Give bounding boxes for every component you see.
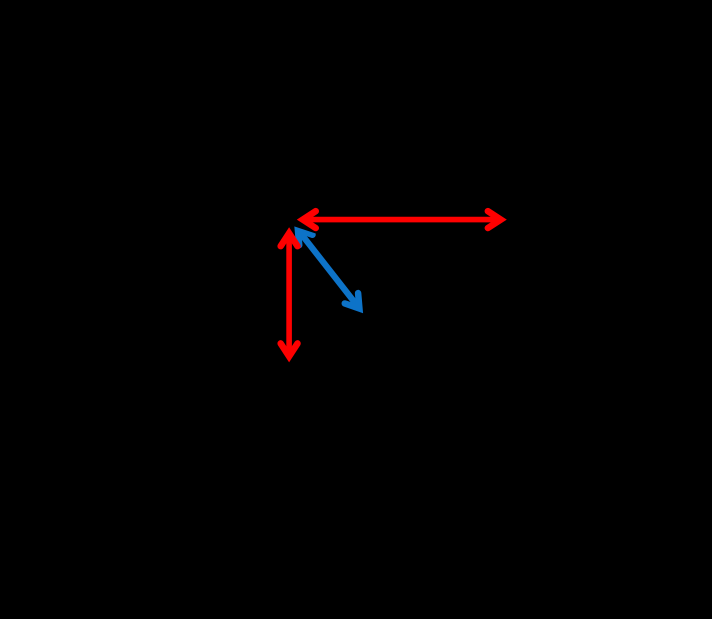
arrowhead: red horizontal, left tip: [303, 211, 316, 228]
arrowhead: blue diagonal, lower-right tip: [345, 293, 360, 308]
arrowhead: red vertical, top tip: [281, 233, 298, 246]
black diagram line crossing over blue arrowhead: [283, 220, 316, 231]
arrow: red vertical double-headed (shaft): [286, 233, 292, 356]
arrowhead: blue diagonal, upper-left tip: [298, 230, 313, 245]
arrow: blue diagonal double-headed (shaft): [298, 230, 360, 309]
arrow: red horizontal double-headed (shaft): [303, 217, 501, 223]
arrowhead: red horizontal, right tip: [488, 211, 501, 228]
arrowhead: red vertical, bottom tip: [281, 343, 298, 356]
